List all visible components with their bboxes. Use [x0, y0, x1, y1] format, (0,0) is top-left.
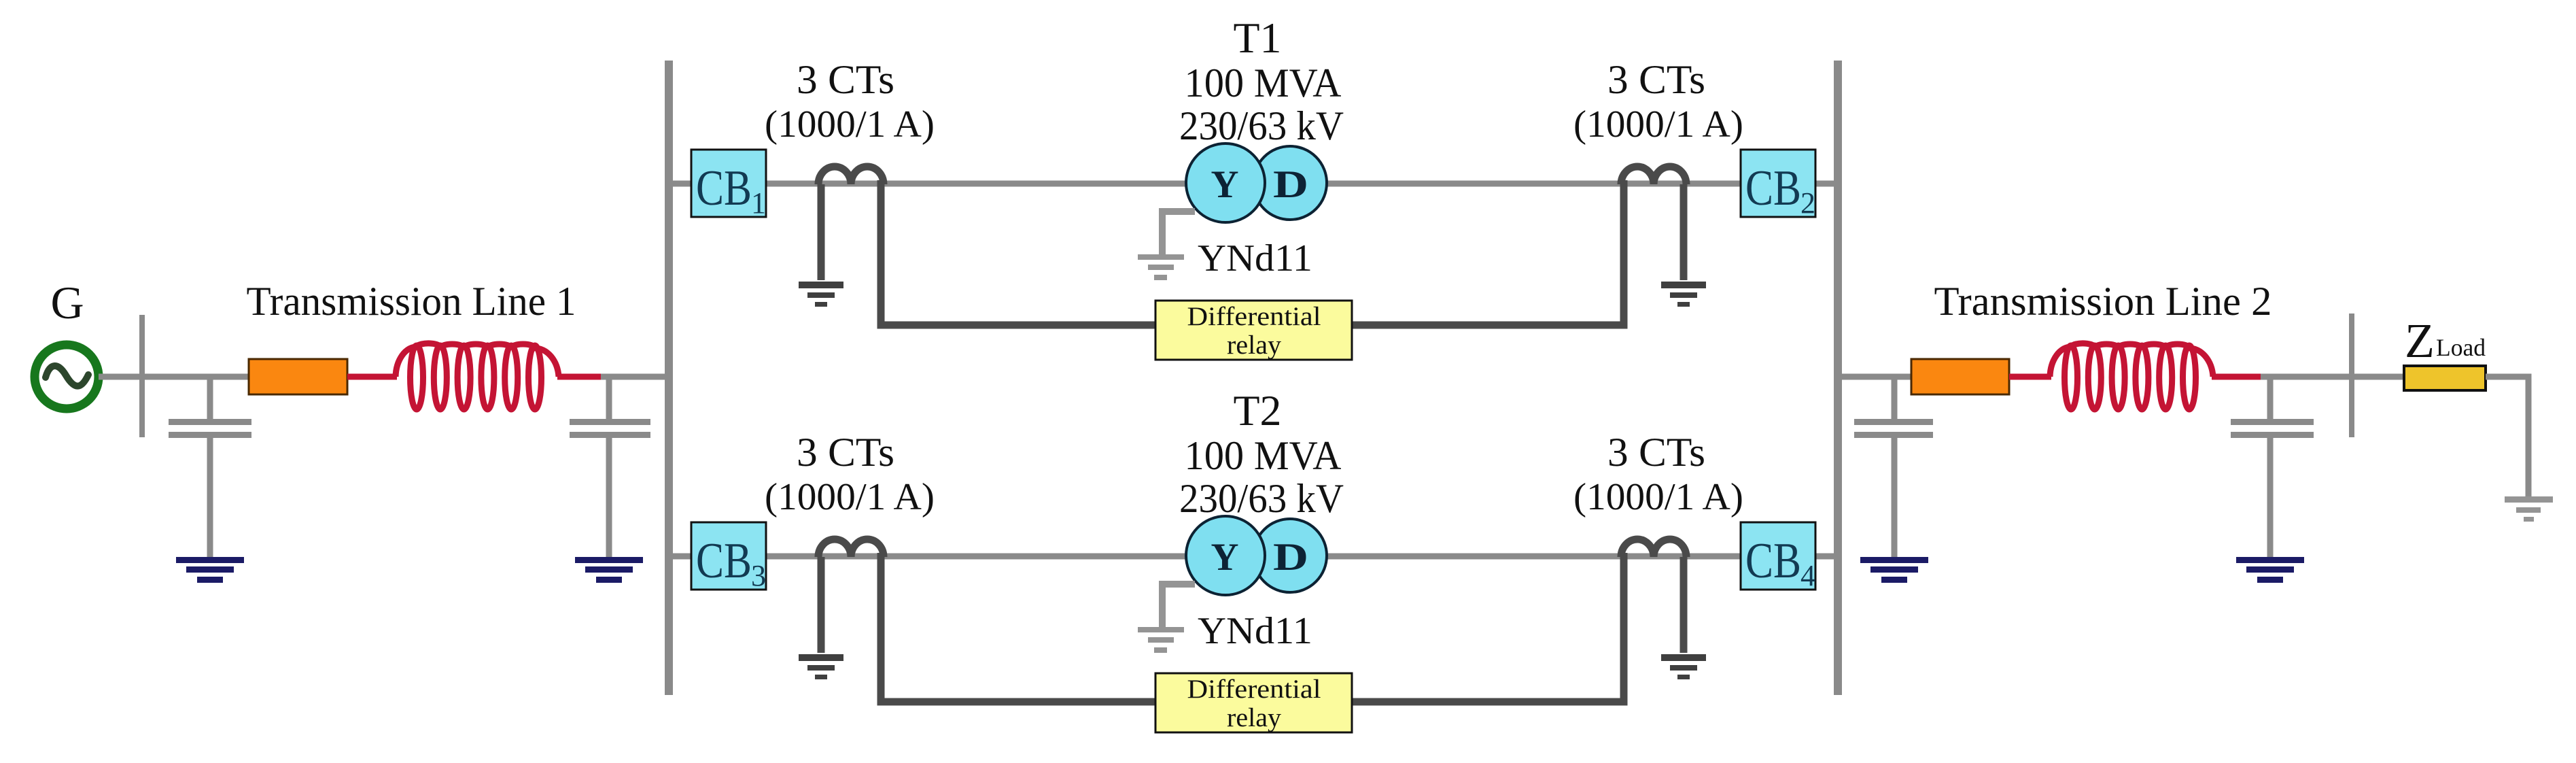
wire inductor TL1 to node — [557, 374, 604, 380]
wire left bus to CB3 — [665, 554, 691, 560]
load impedance Z_Load — [2404, 366, 2486, 390]
ground (capacitor CD) — [2236, 557, 2304, 583]
svg-text:(1000/1 A): (1000/1 A) — [1573, 476, 1743, 518]
capacitor CB plates — [570, 419, 650, 438]
wire CB1 to transformer T1 — [766, 181, 1189, 187]
CT right of T2 (3 CTs) — [1621, 539, 1686, 557]
svg-text:YNd11: YNd11 — [1198, 237, 1312, 279]
wire capacitor CA to ground — [207, 438, 213, 557]
resistor TL2 (series R) — [1911, 359, 2009, 394]
capacitor CA plates — [169, 419, 251, 438]
svg-text:3 CTs: 3 CTs — [797, 430, 894, 475]
wire transformer T1 to CB2 — [1325, 181, 1741, 187]
wire CB3 to transformer T2 — [766, 554, 1189, 560]
ground (CT left of T1) — [799, 282, 843, 307]
ground (capacitor CC) — [1860, 557, 1928, 583]
right bus bar — [1834, 61, 1842, 695]
CT left of T1 (3 CTs) — [818, 167, 884, 184]
circuit breaker CB4 — [1741, 522, 1815, 592]
differential relay (T1) — [1155, 301, 1352, 360]
terminal bar left of load — [2349, 313, 2354, 437]
svg-text:Y: Y — [1211, 163, 1239, 206]
svg-text:Differential: Differential — [1187, 302, 1321, 331]
circuit breaker CB2 — [1741, 150, 1815, 220]
wire CB2 to right bus — [1815, 181, 1834, 187]
ground (capacitor CA) — [176, 557, 244, 583]
resistor TL1 (series R) — [249, 359, 347, 394]
svg-text:CB: CB — [696, 160, 752, 216]
capacitor CC plates — [1854, 419, 1933, 438]
wire capacitor CB to ground — [606, 438, 612, 557]
transformer T2 delta winding D — [1253, 519, 1327, 592]
svg-text:CB: CB — [696, 533, 752, 589]
wire capacitor CC to ground — [1892, 438, 1898, 557]
CT right secondary lead to ground — [1680, 184, 1688, 280]
T2 neutral wire — [1162, 584, 1195, 627]
svg-text:D: D — [1273, 536, 1308, 579]
svg-text:(1000/1 A): (1000/1 A) — [765, 103, 935, 146]
svg-text:T1: T1 — [1234, 14, 1282, 62]
svg-text:CB: CB — [1745, 533, 1801, 589]
transformer T1 wye winding Y — [1186, 143, 1265, 222]
wire to left bus — [601, 374, 666, 380]
CT left secondary lead to relay — [881, 553, 1155, 702]
svg-text:Differential: Differential — [1187, 675, 1321, 704]
CT left secondary lead to ground — [818, 557, 825, 653]
svg-text:relay: relay — [1227, 330, 1282, 360]
circuit breaker CB3 — [691, 522, 766, 592]
ground (T1 neutral) — [1138, 254, 1184, 280]
CT right secondary lead to relay — [1352, 553, 1624, 702]
wire load to ground — [2486, 377, 2528, 496]
CT right of T1 (3 CTs) — [1621, 167, 1686, 184]
wire inductor TL2 to node — [2212, 374, 2264, 380]
inductor TL1 (series L) — [396, 343, 559, 409]
ground (load) — [2505, 496, 2553, 522]
wire to load — [2261, 374, 2406, 380]
svg-text:3 CTs: 3 CTs — [797, 57, 894, 102]
svg-text:230/63 kV: 230/63 kV — [1179, 103, 1344, 148]
ground (T2 neutral) — [1138, 627, 1184, 653]
svg-text:G: G — [50, 277, 84, 328]
transformer T1 delta winding D — [1253, 146, 1327, 220]
svg-text:relay: relay — [1227, 703, 1282, 732]
generator G (AC source) — [35, 345, 99, 409]
label Z_Load — [2405, 313, 2486, 368]
svg-text:Transmission Line 2: Transmission Line 2 — [1934, 279, 2272, 324]
wire capacitor CA stub — [207, 377, 213, 420]
inductor TL2 (series L) — [2050, 343, 2213, 409]
wire generator to TL1 resistor — [99, 374, 250, 380]
svg-text:(1000/1 A): (1000/1 A) — [1573, 103, 1743, 146]
CT right secondary lead to relay — [1352, 180, 1624, 325]
wire capacitor CD stub — [2267, 377, 2274, 420]
ground (CT left of T2) — [799, 654, 843, 679]
wire capacitor CD to ground — [2267, 438, 2274, 557]
wire CB4 to right bus — [1815, 554, 1834, 560]
svg-text:YNd11: YNd11 — [1198, 610, 1312, 652]
differential relay (T2) — [1155, 673, 1352, 732]
wire resistor to inductor TL1 — [347, 374, 397, 380]
wire resistor to inductor TL2 — [2009, 374, 2051, 380]
svg-text:100 MVA: 100 MVA — [1185, 61, 1342, 105]
wire capacitor CC stub — [1892, 377, 1898, 420]
left bus bar — [665, 61, 673, 695]
svg-text:D: D — [1273, 163, 1308, 206]
svg-text:2: 2 — [1800, 186, 1815, 220]
svg-text:3 CTs: 3 CTs — [1607, 430, 1705, 475]
wire transformer T2 to CB4 — [1325, 554, 1741, 560]
wire right bus to TL2 resistor — [1842, 374, 1913, 380]
T1 neutral wire — [1162, 211, 1195, 254]
wire capacitor CB stub — [606, 377, 612, 420]
svg-text:Transmission Line 1: Transmission Line 1 — [247, 279, 576, 324]
wire left bus to CB1 — [665, 181, 691, 187]
svg-text:3 CTs: 3 CTs — [1607, 57, 1705, 102]
CT left of T2 (3 CTs) — [818, 539, 884, 557]
svg-text:230/63 kV: 230/63 kV — [1179, 476, 1344, 521]
circuit breaker CB1 — [691, 150, 766, 220]
capacitor CD plates — [2231, 419, 2314, 438]
svg-text:4: 4 — [1800, 559, 1815, 592]
svg-text:CB: CB — [1745, 160, 1801, 216]
CT left secondary lead to ground — [818, 184, 825, 280]
ground (CT right of T2) — [1661, 654, 1706, 679]
svg-text:3: 3 — [751, 559, 766, 592]
terminal bar left of Transmission Line 1 — [139, 315, 145, 437]
ground (CT right of T1) — [1661, 282, 1706, 307]
svg-text:T2: T2 — [1234, 386, 1282, 435]
CT right secondary lead to ground — [1680, 557, 1688, 653]
svg-text:(1000/1 A): (1000/1 A) — [765, 476, 935, 518]
svg-text:1: 1 — [751, 186, 766, 220]
svg-text:Load: Load — [2436, 334, 2486, 361]
svg-text:100 MVA: 100 MVA — [1185, 433, 1342, 478]
transformer T2 wye winding Y — [1186, 516, 1265, 595]
svg-text:Z: Z — [2405, 313, 2435, 368]
CT left secondary lead to relay — [881, 180, 1155, 325]
svg-text:Y: Y — [1211, 536, 1239, 579]
ground (capacitor CB) — [575, 557, 643, 583]
